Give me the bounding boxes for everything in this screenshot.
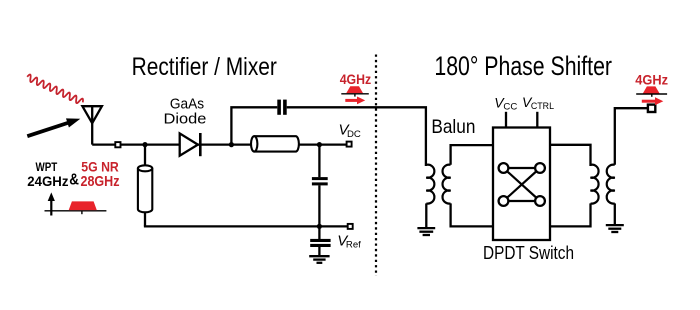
DPDT switch box U1 [493,128,550,241]
svg-text:CC: CC [503,102,517,113]
node C (VDC junction) [317,142,322,147]
VRef terminal [319,224,352,229]
wire L2 secondary to output port [615,108,648,165]
ground (left balun) [417,228,435,235]
svg-text:24GHz: 24GHz [27,174,68,189]
diode D1 [180,133,232,156]
spectrum icon (input): frequency axis [45,210,107,212]
wire switch to right balun (bottom) [550,203,591,226]
svg-text:180° Phase Shifter: 180° Phase Shifter [434,51,612,81]
VDC terminal [347,142,352,147]
balun L2 secondary coil [607,165,615,204]
divider dotted line [375,55,377,277]
svg-text:Balun: Balun [431,116,475,138]
svg-text:CTRL: CTRL [531,101,555,112]
VCTRL control wire [536,112,538,128]
svg-text:DPDT Switch: DPDT Switch [483,243,574,263]
wire L1 secondary bottom to switch [451,203,493,226]
wire switch to right balun (top) [550,145,591,166]
ground (right balun) [606,225,624,232]
transmission line TL1 (horizontal cylinder) [251,136,299,151]
signal flow arrow (right, red) [642,97,664,105]
4GHz spectrum icon (right) [636,86,667,96]
label VRef [337,233,361,251]
wire L1 primary to ground [425,203,427,228]
wire to top branch [231,107,277,144]
wire stub to bottom rail [144,212,146,226]
incident RF wave (red squiggle) [26,74,84,106]
svg-text:WPT: WPT [36,160,58,174]
wire L2 secondary to ground [614,203,616,225]
wire antenna to diode [92,143,180,145]
label VDC [339,121,361,140]
bottom rail wire [144,225,320,227]
DC-block capacitor C1 (top branch) [277,100,286,115]
wire diode to VDC node [231,143,346,145]
shorted stub transmission line (vertical cylinder) [138,165,152,212]
spectrum icon (input): tick [81,211,83,214]
wire stub branch [144,145,146,167]
svg-text:GaAs: GaAs [170,97,204,113]
spectrum icon (input): axis arrow [48,192,55,215]
output terminal square [648,105,655,112]
spectrum icon (input): red band trapezoid [69,201,97,210]
incident wave arrow [27,118,80,136]
balun L1 primary coil [426,165,434,204]
svg-text:Ref: Ref [346,240,361,251]
antenna [82,106,102,144]
balun L1 secondary coil [443,165,451,204]
port square (input) [115,142,120,147]
label VCTRL [522,94,555,112]
VCC supply wire [505,112,507,128]
wire L1 secondary top to switch [451,145,493,165]
DPDT port circles [499,163,545,206]
node D (VRef junction) [317,224,322,229]
svg-text:Rectifier / Mixer: Rectifier / Mixer [132,53,277,81]
node B (diode cathode junction) [229,142,234,147]
svg-text:&: & [69,171,79,188]
svg-text:28GHz: 28GHz [81,173,120,190]
svg-text:4GHz: 4GHz [635,71,668,87]
balun L2 primary coil [591,165,599,204]
wire top branch to left balun [287,107,426,166]
svg-text:Diode: Diode [164,112,207,128]
label VCC [494,94,517,112]
signal flow arrow (left, red) [345,97,365,105]
node A (stub junction) [142,142,147,147]
capacitor C3 (VRef to ground) [310,226,330,256]
4GHz spectrum icon (left) [341,86,369,96]
capacitor C2 (between VDC and VRef rails) [312,145,328,227]
svg-text:4GHz: 4GHz [340,71,372,87]
ground (rectifier) [309,256,329,263]
svg-text:DC: DC [347,129,361,140]
DPDT cross network wires [504,168,541,201]
